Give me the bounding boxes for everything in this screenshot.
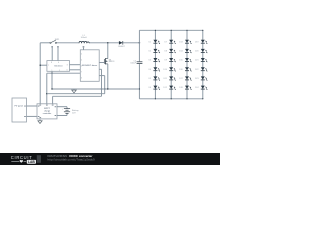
junction dot rail B — [101, 88, 102, 89]
LED D3 — [149, 58, 160, 62]
wire driver pin A — [99, 69, 101, 96]
LED D17 — [179, 76, 191, 80]
pin 5 label driver — [81, 65, 82, 67]
svg-text:D21: D21 — [195, 60, 198, 62]
wire PV- to controller — [27, 115, 38, 117]
watermark bar — [0, 153, 220, 165]
wire PV+ to controller — [27, 105, 38, 107]
svg-text:12V: 12V — [72, 113, 76, 115]
op-amp U1 555 timer box — [47, 61, 70, 72]
LED D19 — [195, 40, 207, 44]
junction dot rail 555 — [51, 88, 52, 89]
LED D12 — [163, 86, 175, 90]
svg-text:D4: D4 — [149, 69, 151, 71]
label L1 value — [81, 35, 87, 39]
LED D13 — [179, 40, 191, 44]
svg-text:D14: D14 — [179, 51, 182, 53]
wire 555 pin4 stub — [57, 46, 59, 60]
svg-text:http://circuitlab.com/c/7aau1y: http://circuitlab.com/c/7aau1y2adu9 — [48, 158, 96, 162]
wire main supply rail y=43 — [40, 42, 139, 44]
pin 8 label — [51, 62, 52, 64]
junction dot column 2 bottom — [171, 98, 172, 99]
diode D1 — [119, 41, 123, 45]
svg-text:3: 3 — [67, 64, 68, 66]
pin 3 label — [67, 64, 68, 66]
svg-text:D18: D18 — [179, 87, 182, 89]
LED D11 — [164, 76, 176, 80]
LED D2 — [149, 49, 160, 53]
junction dot column 4 top — [202, 30, 203, 31]
label MPPT charge controller — [43, 108, 52, 115]
LED D5 — [149, 76, 160, 80]
wire gate — [99, 62, 104, 64]
pin 5 label — [59, 70, 60, 72]
pin marks PV — [24, 106, 26, 117]
LED D18 — [179, 86, 191, 90]
pin 4 label — [58, 62, 59, 64]
svg-text:D2: D2 — [149, 51, 151, 53]
LED D22 — [195, 67, 207, 71]
junction dot column 3 bottom — [186, 98, 187, 99]
wire driver top stub — [83, 46, 85, 50]
label Battery 12V — [72, 109, 80, 114]
wire LED column 3 — [186, 30, 188, 99]
wire source down — [107, 64, 109, 89]
wire LED column 2 — [170, 30, 172, 99]
LED D1 — [149, 40, 160, 44]
svg-text:D5: D5 — [149, 78, 151, 80]
svg-text:5: 5 — [59, 70, 60, 72]
junction dot column 3 top — [186, 30, 187, 31]
junction dot 555pin1-W73 — [51, 73, 52, 74]
LED D16 — [179, 67, 191, 71]
svg-text:7: 7 — [48, 65, 49, 67]
label 555 timer — [54, 64, 63, 67]
wire drain up — [107, 43, 109, 59]
junction dot column 2 top — [171, 30, 172, 31]
wire W73 to driver pin7 — [47, 72, 81, 74]
svg-text:D19: D19 — [195, 41, 198, 43]
wire 555 pin1 down — [51, 71, 53, 89]
pin 6 label — [67, 70, 68, 72]
switch SW1 — [50, 40, 57, 43]
wire driver pin B — [99, 76, 105, 94]
pin 6 label driver — [81, 77, 82, 79]
pin 7 label driver — [81, 71, 82, 73]
junction dot cap-rail — [139, 88, 140, 89]
capacitor C1 — [137, 62, 143, 64]
transistor M1 — [104, 58, 108, 64]
junction dot rail source — [107, 88, 108, 89]
MPPT charge controller box — [37, 104, 57, 119]
svg-text:MOSFET driver: MOSFET driver — [82, 64, 97, 67]
svg-text:100uH: 100uH — [81, 37, 87, 39]
LED D20 — [195, 49, 207, 53]
LED D9 — [164, 58, 175, 62]
svg-text:D15: D15 — [179, 60, 182, 62]
svg-text:555 timer: 555 timer — [54, 64, 63, 67]
LED D24 — [195, 86, 207, 90]
wire LED array top bus — [139, 29, 202, 31]
svg-text:D6: D6 — [149, 87, 151, 89]
logo CIRCUIT — [11, 155, 33, 160]
svg-text:D3: D3 — [149, 60, 151, 62]
wire output riser — [138, 30, 140, 61]
LED D8 — [164, 49, 175, 53]
junction dot column 1 top — [155, 30, 156, 31]
label SW1 — [55, 39, 60, 41]
svg-text:D20: D20 — [195, 51, 198, 53]
credit line 1 — [48, 154, 94, 158]
LED D10 — [163, 67, 175, 71]
svg-text:D16: D16 — [179, 69, 182, 71]
svg-text:1N4007: 1N4007 — [118, 46, 126, 48]
wire 555 out to driver — [70, 64, 81, 66]
junction dot rail A — [104, 88, 105, 89]
wire 555 pin8 stub — [51, 46, 53, 60]
pin 1 label — [52, 70, 53, 72]
ground symbol controller — [38, 119, 42, 124]
svg-text:D1: D1 — [149, 41, 151, 43]
svg-text:4: 4 — [58, 62, 59, 64]
LED D15 — [179, 58, 191, 62]
LED D14 — [179, 49, 191, 53]
svg-text:D24: D24 — [195, 87, 198, 89]
wire LED column 1 — [154, 30, 156, 99]
wire left drop node V1 — [39, 43, 41, 104]
pin 7 label — [48, 65, 49, 67]
wire battery top lead — [57, 107, 67, 109]
pin 2 label driver — [81, 53, 82, 55]
svg-text:LAB: LAB — [28, 160, 35, 164]
wire battery bottom lead — [57, 113, 67, 115]
svg-text:D11: D11 — [164, 78, 167, 80]
svg-text:D9: D9 — [164, 60, 166, 62]
LED D23 — [195, 76, 207, 80]
battery V1 12V — [62, 108, 70, 113]
junction dot output node — [139, 42, 141, 44]
junction dot column 1 bottom — [155, 98, 156, 99]
ground symbol converter — [72, 89, 77, 93]
svg-text:D7: D7 — [164, 41, 166, 43]
logo divider block — [37, 155, 41, 163]
svg-text:controller: controller — [43, 112, 52, 115]
svg-text:D23: D23 — [195, 78, 198, 80]
label MOSFET driver — [82, 64, 97, 67]
wire H96 feedback — [53, 96, 102, 104]
pin 4 label driver — [81, 59, 82, 61]
label D1 — [118, 46, 126, 48]
pin marks controller — [38, 105, 56, 119]
LED D21 — [195, 58, 207, 62]
ground rail — [52, 88, 139, 90]
wire LED array bottom bus — [139, 98, 202, 100]
PV panel box — [12, 98, 27, 122]
wire 555 left pin to node — [40, 64, 47, 66]
svg-text:D22: D22 — [195, 69, 198, 71]
wire 555 pin6 to driver — [70, 69, 81, 71]
junction dot column 4 bottom — [202, 98, 203, 99]
label C1 — [130, 60, 137, 64]
junction dot V2-H93 — [46, 93, 47, 94]
wire cap to ground rail — [138, 64, 140, 99]
svg-text:D13: D13 — [179, 41, 182, 43]
LED D6 — [149, 86, 160, 90]
LED D4 — [149, 67, 160, 71]
credit line 2 — [48, 158, 96, 162]
logo wire-heart-LAB — [11, 160, 36, 164]
svg-text:D17: D17 — [179, 78, 182, 80]
svg-text:PV panel: PV panel — [14, 105, 23, 107]
label M1 — [109, 59, 115, 63]
wire H93 feedback — [47, 93, 105, 95]
junction dot V1-555 — [40, 65, 41, 66]
wire V2 node — [46, 73, 48, 104]
svg-text:D12: D12 — [163, 87, 166, 89]
label PV panel — [14, 105, 23, 107]
svg-text:6: 6 — [67, 70, 68, 72]
svg-text:8: 8 — [51, 62, 52, 64]
svg-text:NMOS: NMOS — [109, 61, 115, 63]
svg-text:100uF: 100uF — [130, 62, 136, 64]
LED D7 — [164, 40, 175, 44]
inductor L1 — [79, 41, 89, 43]
op-amp U2 MOSFET driver box — [80, 50, 99, 82]
svg-text:D10: D10 — [163, 69, 166, 71]
wire LED column 4 — [202, 30, 204, 99]
svg-text:D8: D8 — [164, 51, 166, 53]
junction dot drain tap — [107, 42, 108, 43]
